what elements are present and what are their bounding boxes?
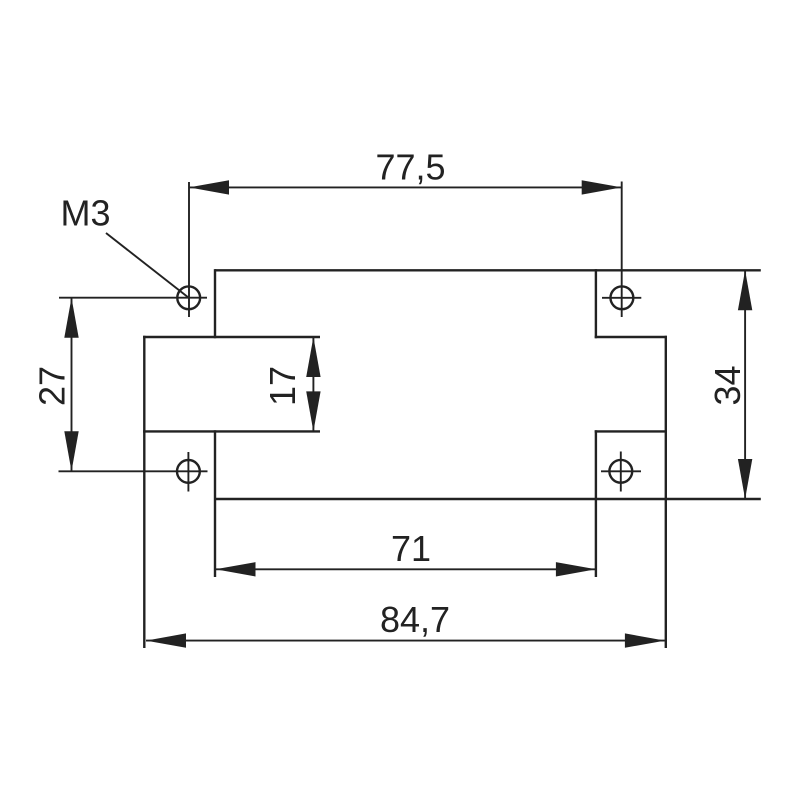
- extension line left for 77,5 (through hole TL): [188, 182, 190, 317]
- label 27 (rotated): [32, 366, 73, 406]
- top-right step vertical edge: [595, 269, 597, 338]
- top-right step horizontal edge: [595, 336, 667, 338]
- label 84,7: [380, 599, 450, 640]
- label 71: [391, 528, 431, 569]
- left upper edge segment: [214, 269, 216, 338]
- label M3: [60, 193, 110, 234]
- left tab left edge (continues as extension line for 84,7): [143, 336, 145, 648]
- bottom-right step vertical edge (continues as extension line for 71): [595, 430, 597, 577]
- extension line bottom for 27 (through hole BL): [59, 470, 208, 472]
- svg-text:27: 27: [32, 366, 73, 406]
- svg-text:71: 71: [391, 528, 431, 569]
- hole TR: [602, 286, 641, 309]
- leader line for M3: [106, 233, 189, 298]
- right edge of cutout (continues as extension line for 84,7): [665, 336, 667, 648]
- hole BL: [177, 452, 200, 492]
- top edge of cutout (also extension line for 34): [215, 269, 761, 271]
- hole BR: [601, 452, 641, 492]
- label 77,5: [375, 146, 445, 187]
- dimension line 84,7: [146, 633, 665, 647]
- dimension line 77,5: [189, 180, 622, 194]
- left tab bottom edge (also extension line for 17): [143, 430, 320, 432]
- svg-text:M3: M3: [60, 193, 110, 234]
- dimension line 17: [306, 337, 320, 431]
- label 34 (rotated): [707, 365, 748, 405]
- bottom edge of cutout (also extension line for 34): [215, 498, 761, 500]
- hole TL (M3): [177, 286, 200, 309]
- svg-text:77,5: 77,5: [375, 146, 445, 187]
- left lower edge segment (continues as extension line for 71): [214, 430, 216, 577]
- extension line right for 77,5 (through hole TR): [621, 182, 623, 318]
- svg-text:17: 17: [262, 366, 303, 406]
- extension line top for 27 (through hole TL): [59, 297, 207, 299]
- dimension line 34: [738, 270, 752, 499]
- label 17 (rotated): [262, 366, 303, 406]
- bottom-right step horizontal edge: [595, 430, 667, 432]
- left tab top edge (also extension line for 17): [143, 336, 320, 338]
- dimension line 71: [216, 562, 596, 576]
- svg-text:34: 34: [707, 365, 748, 405]
- dimension line 27: [64, 298, 78, 472]
- svg-text:84,7: 84,7: [380, 599, 450, 640]
